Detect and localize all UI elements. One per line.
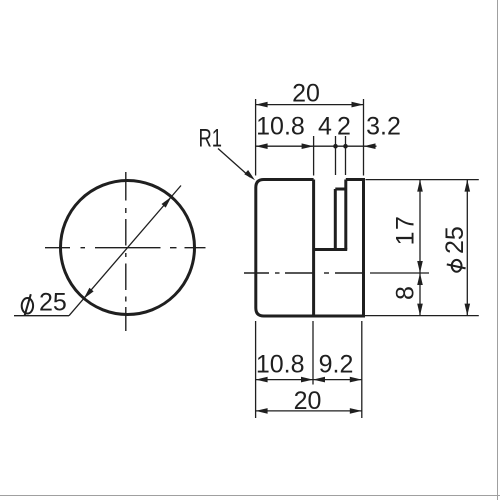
horizontal centerline (45, 247, 206, 249)
dimension line phi25 (466, 180, 468, 316)
label phi25 side: phi symbol (447, 260, 466, 272)
arrow phi25 up (465, 180, 471, 192)
svg-text:10.8: 10.8 (256, 112, 305, 140)
step inner wall line (334, 189, 337, 250)
slot bottom line (314, 248, 348, 251)
R1 leader line (218, 149, 250, 178)
arrow 10.8 left (256, 143, 268, 149)
arrowhead lower-left on circle (84, 288, 94, 299)
svg-text:25: 25 (441, 226, 469, 254)
R1 leader arrowhead (244, 170, 255, 180)
svg-text:17: 17 (392, 215, 420, 246)
arrow 8 up (417, 273, 423, 285)
svg-text:8: 8 (392, 286, 420, 300)
page frame right rule (497, 0, 499, 500)
dot terminator 2/3.2 (343, 144, 348, 149)
slot right wall line (344, 180, 347, 250)
page frame bottom rule (0, 495, 500, 497)
diameter leader underline (14, 315, 69, 317)
arrow 20 top left (256, 102, 268, 108)
svg-text:4: 4 (318, 112, 332, 140)
extension line slot left (313, 136, 315, 176)
diameter leader diagonal line (69, 186, 181, 316)
svg-text:9.2: 9.2 (319, 351, 354, 379)
label phi25 front: phi symbol (22, 294, 33, 315)
dimension line 10.8/9.2 (256, 379, 362, 381)
extension line left face (255, 99, 257, 176)
extension line bottom right (361, 321, 363, 418)
extension line bottom left (255, 321, 257, 418)
svg-text:25: 25 (39, 289, 67, 317)
arrow b9.2 right (350, 377, 362, 383)
arrow phi25 down (465, 304, 471, 316)
step top line (335, 188, 346, 191)
arrow 17 down (417, 261, 423, 273)
arrow 3.2 outside (364, 143, 376, 149)
arrow b20 right (350, 408, 362, 414)
arrow b10.8 left (256, 377, 268, 383)
circle: cylinder front outline (61, 181, 195, 315)
slot left wall line (312, 180, 315, 317)
dimension line 10.8/4/2/3.2 (256, 145, 377, 147)
vertical centerline (125, 172, 127, 331)
svg-text:20: 20 (292, 79, 320, 107)
dimension line 17/8 (419, 180, 421, 316)
arrow 17 up (417, 180, 423, 192)
extension line right face (363, 99, 365, 176)
dot terminator 4/2 (333, 144, 338, 149)
part outline with rounded left corners (256, 180, 364, 317)
extension line bottom slot (312, 321, 314, 385)
extension line top right (366, 179, 479, 181)
arrow b20 left (256, 408, 268, 414)
extension line slot right (345, 136, 347, 175)
arrowhead upper-right on circle (162, 197, 172, 208)
dimension line 20 bottom (256, 410, 362, 412)
svg-text:3.2: 3.2 (366, 112, 401, 140)
label phi25 side (rotated): 25 (441, 226, 469, 254)
svg-text:10.8: 10.8 (256, 351, 305, 379)
arrow 20 top right (352, 102, 364, 108)
arrow 8 down (417, 304, 423, 316)
extension line step left (335, 136, 337, 175)
arrow b9.2 left (313, 377, 325, 383)
svg-text:20: 20 (294, 387, 322, 415)
arrow b10.8 right (301, 377, 313, 383)
arrow 10.8 right (302, 143, 314, 149)
dimension line 20 top (256, 104, 364, 106)
svg-text:2: 2 (337, 112, 351, 140)
extension line mid 17/8 (370, 272, 429, 274)
extension line bottom right (365, 315, 479, 317)
side view axis centerline (244, 272, 365, 274)
